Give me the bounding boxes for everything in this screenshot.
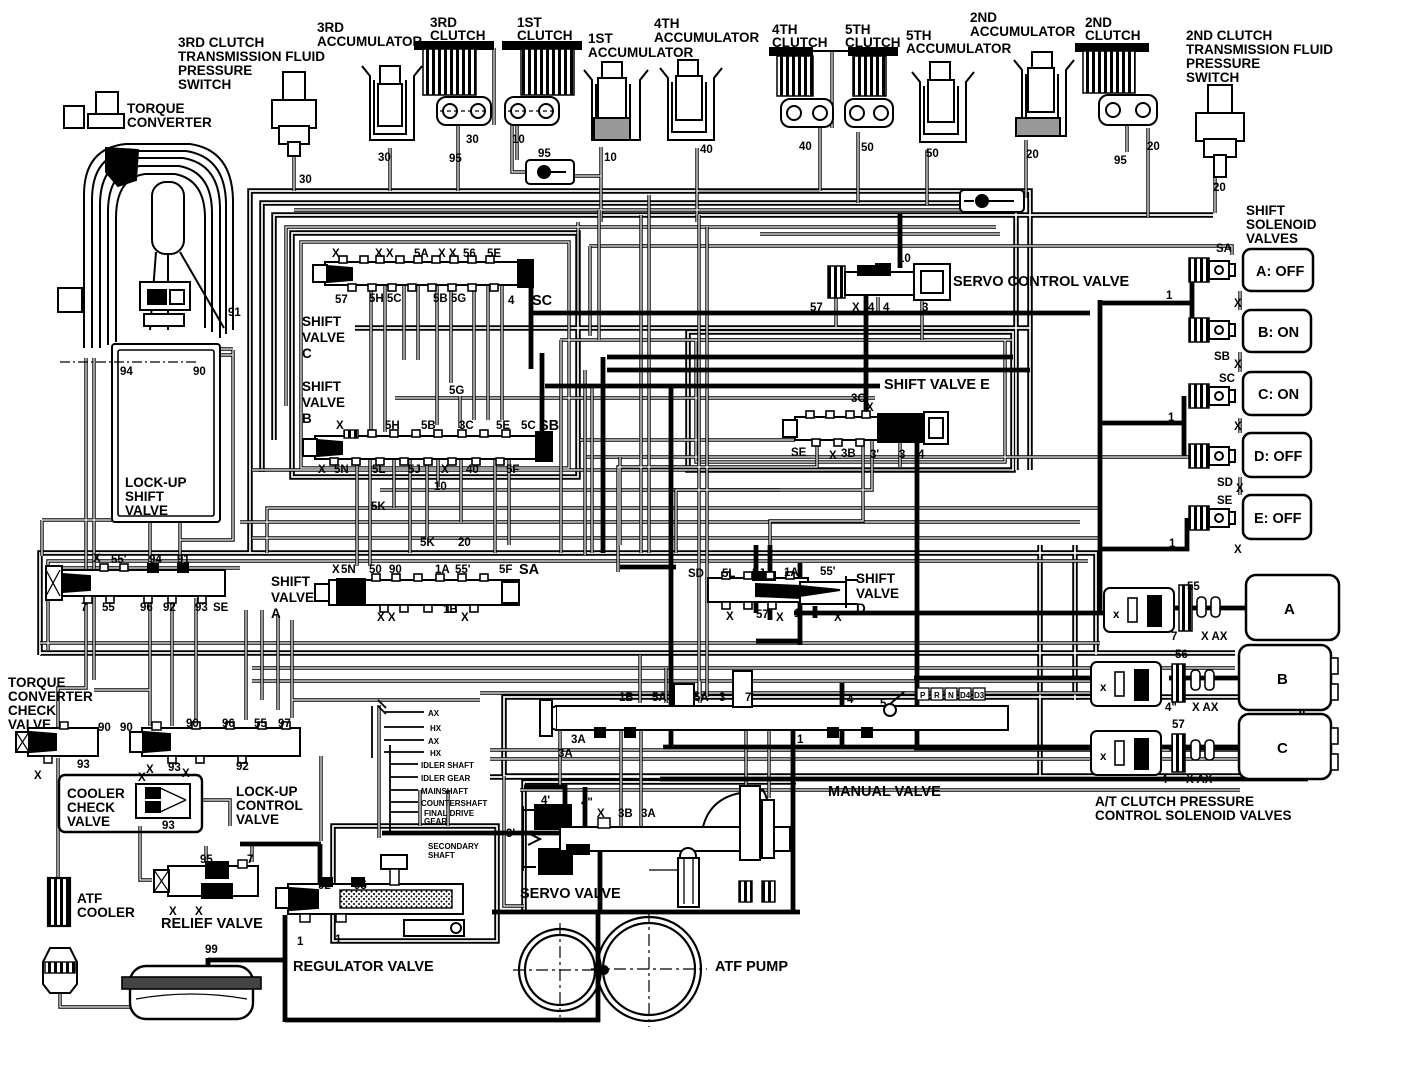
shift solenoid valve C coil	[1189, 384, 1235, 408]
svg-text:TORQUE: TORQUE	[127, 101, 185, 116]
shift solenoid valve D coil	[1189, 444, 1235, 468]
wire thick branch to solenoid A/B	[1100, 270, 1192, 330]
svg-text:3A: 3A	[571, 734, 586, 746]
check valve top right	[960, 190, 1024, 212]
svg-text:95: 95	[538, 148, 551, 160]
wire thick SB column	[540, 353, 545, 436]
svg-text:E: OFF: E: OFF	[1254, 511, 1302, 527]
clutch 1st	[503, 42, 581, 125]
svg-text:SD: SD	[688, 568, 704, 580]
svg-text:SD: SD	[1217, 477, 1233, 489]
svg-text:93: 93	[77, 759, 90, 771]
svg-text:x: x	[1113, 609, 1120, 621]
svg-text:3B: 3B	[841, 448, 856, 460]
shift solenoid valve B coil	[1189, 318, 1235, 342]
svg-text:X: X	[461, 612, 469, 624]
regulator valve	[276, 855, 464, 936]
wire thick bus x756	[754, 545, 759, 613]
svg-text:55: 55	[102, 602, 115, 614]
svg-text:3C: 3C	[851, 393, 866, 405]
svg-text:CONTROL SOLENOID VALVES: CONTROL SOLENOID VALVES	[1095, 808, 1292, 823]
svg-text:X: X	[195, 906, 203, 918]
wire thick branch to solenoid C/D	[1100, 396, 1184, 456]
svg-text:5E: 5E	[496, 420, 510, 432]
svg-text:5N: 5N	[334, 464, 349, 476]
svg-text:X: X	[852, 302, 860, 314]
svg-text:92: 92	[163, 602, 176, 614]
A/T clutch pressure solenoid C body	[1091, 731, 1214, 775]
svg-text:P: P	[920, 691, 926, 700]
svg-text:1A: 1A	[435, 564, 450, 576]
svg-text:95: 95	[1114, 155, 1127, 167]
svg-text:CLUTCH: CLUTCH	[845, 35, 901, 50]
svg-text:90: 90	[193, 366, 206, 378]
svg-text:COOLER: COOLER	[67, 786, 125, 801]
svg-text:57: 57	[1172, 719, 1185, 731]
svg-text:MAINSHAFT: MAINSHAFT	[421, 787, 468, 796]
svg-text:90: 90	[186, 718, 199, 730]
svg-text:SE: SE	[791, 447, 807, 459]
svg-text:5A: 5A	[414, 248, 429, 260]
svg-text:SWITCH: SWITCH	[178, 77, 231, 92]
svg-text:90: 90	[98, 722, 111, 734]
svg-text:HX: HX	[430, 749, 442, 758]
wire thick trunk y357	[607, 355, 1013, 360]
svg-text:94: 94	[120, 366, 133, 378]
wire thick branch to solenoid E	[1100, 518, 1187, 549]
svg-text:95: 95	[354, 880, 367, 892]
svg-text:IDLER SHAFT: IDLER SHAFT	[421, 761, 474, 770]
svg-text:AX: AX	[428, 709, 440, 718]
svg-text:CHECK: CHECK	[8, 703, 56, 718]
clutch 5th	[812, 48, 897, 127]
svg-text:5N: 5N	[341, 564, 356, 576]
svg-text:5H 5C: 5H 5C	[369, 293, 402, 305]
svg-text:COUNTERSHAFT: COUNTERSHAFT	[421, 799, 487, 808]
torque converter centerline	[60, 361, 199, 363]
wire thick regulator left	[283, 915, 288, 1022]
wire thick servo feed vertical	[791, 731, 796, 912]
svg-text:5B 5G: 5B 5G	[433, 293, 466, 305]
svg-text:SHIFT: SHIFT	[302, 314, 342, 329]
svg-text:10: 10	[604, 152, 617, 164]
svg-text:CLUTCH: CLUTCH	[772, 35, 828, 50]
servo valve	[523, 786, 790, 907]
svg-text:40: 40	[466, 464, 479, 476]
svg-text:5L: 5L	[722, 568, 735, 580]
svg-text:5F: 5F	[499, 564, 512, 576]
svg-text:CONVERTER: CONVERTER	[127, 115, 212, 130]
svg-text:SHIFT: SHIFT	[271, 574, 311, 589]
accumulator 5th	[912, 62, 974, 142]
pressure switch 2nd clutch	[1196, 85, 1244, 177]
svg-text:SWITCH: SWITCH	[1186, 70, 1239, 85]
svg-text:1A: 1A	[784, 567, 799, 579]
svg-text:2ND: 2ND	[970, 10, 997, 25]
svg-text:5A: 5A	[694, 692, 709, 704]
svg-text:N: N	[948, 691, 954, 700]
ATF pump small gear	[513, 923, 607, 1017]
svg-text:2ND CLUTCH: 2ND CLUTCH	[1186, 28, 1272, 43]
svg-text:SHIFT VALVE E: SHIFT VALVE E	[884, 377, 990, 393]
svg-text:55: 55	[254, 718, 267, 730]
accumulator 2nd	[1014, 52, 1074, 136]
spool shift valve E	[783, 411, 948, 446]
svg-text:X: X	[332, 248, 340, 260]
svg-text:HX: HX	[430, 724, 442, 733]
A/T clutch pressure solenoid A box	[1246, 575, 1339, 640]
svg-text:20: 20	[1213, 182, 1226, 194]
svg-text:1ST: 1ST	[588, 31, 614, 46]
svg-text:AX: AX	[428, 737, 440, 746]
svg-text:55: 55	[1187, 581, 1200, 593]
svg-text:5A: 5A	[652, 692, 667, 704]
svg-text:SA: SA	[1216, 243, 1232, 255]
svg-text:X: X	[1234, 359, 1242, 371]
svg-text:57: 57	[335, 294, 348, 306]
svg-text:3C: 3C	[459, 420, 474, 432]
svg-text:99: 99	[205, 944, 218, 956]
svg-text:56: 56	[1175, 649, 1188, 661]
svg-text:92: 92	[236, 761, 249, 773]
svg-text:ACCUMULATOR: ACCUMULATOR	[906, 41, 1011, 56]
svg-text:SA: SA	[519, 562, 540, 578]
svg-text:4': 4'	[541, 795, 550, 807]
svg-text:5J: 5J	[752, 568, 765, 580]
wire thick manual valve port 4	[840, 683, 845, 747]
svg-text:SE: SE	[1217, 495, 1233, 507]
spool manual valve	[540, 671, 1008, 737]
svg-text:30: 30	[378, 152, 391, 164]
svg-text:CLUTCH: CLUTCH	[1085, 28, 1141, 43]
torque converter check valve	[16, 722, 98, 763]
svg-text:5C: 5C	[521, 420, 536, 432]
svg-text:MANUAL VALVE: MANUAL VALVE	[828, 784, 941, 800]
svg-text:VALVE: VALVE	[302, 330, 345, 345]
svg-text:ACCUMULATOR: ACCUMULATOR	[588, 45, 693, 60]
svg-text:X: X	[182, 768, 190, 780]
svg-text:VALVE: VALVE	[856, 586, 899, 601]
wire thick trunk y386	[545, 384, 880, 389]
svg-text:X: X	[776, 612, 784, 624]
svg-text:X: X	[336, 420, 344, 432]
svg-text:5K: 5K	[371, 501, 386, 513]
wire thick bottom return	[285, 1018, 600, 1023]
wire thick trunk y370	[607, 368, 1030, 373]
svg-text:X: X	[1234, 421, 1242, 433]
svg-text:92: 92	[318, 880, 331, 892]
svg-text:96: 96	[222, 718, 235, 730]
wire thick secondary shaft line	[382, 833, 600, 912]
svg-text:TORQUE: TORQUE	[8, 675, 66, 690]
svg-text:SHAFT: SHAFT	[428, 851, 455, 860]
svg-text:X: X	[834, 612, 842, 624]
svg-text:RELIEF VALVE: RELIEF VALVE	[161, 916, 263, 932]
wire thick pan 99 line	[208, 958, 287, 966]
label shaft legend	[421, 709, 487, 860]
svg-text:20: 20	[1147, 141, 1160, 153]
wire thick regulator feed	[240, 844, 321, 884]
svg-text:1: 1	[797, 734, 804, 746]
A/T clutch pressure solenoid C box	[1239, 714, 1331, 779]
svg-text:LOCK-UP: LOCK-UP	[236, 784, 298, 799]
svg-text:VALVE: VALVE	[67, 814, 110, 829]
svg-text:90: 90	[120, 722, 133, 734]
svg-text:50: 50	[369, 564, 382, 576]
svg-text:1: 1	[1166, 290, 1173, 302]
svg-text:4": 4"	[1165, 702, 1177, 714]
svg-text:55': 55'	[820, 566, 836, 578]
wire thick manual valve y777	[660, 777, 1308, 782]
svg-text:30: 30	[466, 134, 479, 146]
svg-text:X X: X X	[377, 612, 396, 624]
svg-text:D4: D4	[960, 691, 971, 700]
svg-text:X AX: X AX	[1192, 702, 1219, 714]
svg-text:93: 93	[162, 820, 175, 832]
svg-text:7: 7	[745, 692, 751, 704]
svg-text:4TH: 4TH	[654, 16, 680, 31]
svg-text:3: 3	[719, 692, 725, 704]
svg-text:SC: SC	[1219, 373, 1235, 385]
svg-text:4: 4	[508, 295, 515, 307]
svg-text:96: 96	[140, 602, 153, 614]
ATF cooler	[48, 878, 70, 926]
wire thick shift-D right vertical	[756, 563, 802, 645]
wire thick SC column	[529, 286, 534, 369]
svg-text:3: 3	[922, 302, 928, 314]
wire thick servo 4-prime feeds	[524, 787, 585, 830]
svg-text:D3: D3	[974, 691, 985, 700]
svg-text:ATF PUMP: ATF PUMP	[715, 959, 788, 975]
svg-text:5F: 5F	[506, 464, 519, 476]
svg-text:1B: 1B	[443, 604, 458, 616]
svg-text:5K: 5K	[420, 537, 435, 549]
svg-text:3A: 3A	[641, 808, 656, 820]
svg-text:SHIFT: SHIFT	[125, 489, 165, 504]
wire thick servo-control to shift-E	[864, 295, 869, 415]
svg-text:ATF: ATF	[77, 891, 102, 906]
svg-text:PRESSURE: PRESSURE	[1186, 56, 1260, 71]
svg-text:90: 90	[389, 564, 402, 576]
wire thick A/T solenoid C feed	[914, 746, 1239, 751]
cooler check valve box	[59, 775, 202, 832]
svg-text:X: X	[34, 770, 42, 782]
svg-text:CLUTCH: CLUTCH	[430, 28, 486, 43]
svg-text:95: 95	[200, 854, 213, 866]
ATF pump large gear	[591, 911, 707, 1027]
svg-text:SB: SB	[1214, 351, 1230, 363]
A/T clutch pressure solenoid A body	[1104, 585, 1220, 632]
svg-text:5H: 5H	[385, 420, 400, 432]
svg-text:VALVE: VALVE	[125, 503, 168, 518]
svg-text:VALVES: VALVES	[1246, 231, 1298, 246]
spool shift valve D	[708, 572, 858, 609]
svg-text:1: 1	[794, 608, 801, 620]
svg-text:D: OFF: D: OFF	[1254, 449, 1302, 465]
svg-text:40: 40	[700, 144, 713, 156]
svg-text:X: X	[597, 808, 605, 820]
svg-text:IDLER GEAR: IDLER GEAR	[421, 774, 471, 783]
pressure switch 3rd clutch	[272, 72, 316, 156]
svg-text:X: X	[726, 611, 734, 623]
svg-text:3': 3'	[506, 828, 515, 840]
clutch 4th	[770, 48, 833, 127]
svg-text:1: 1	[1169, 538, 1176, 550]
svg-text:PRESSURE: PRESSURE	[178, 63, 252, 78]
spool shift valve C	[313, 256, 533, 291]
svg-text:7: 7	[81, 602, 87, 614]
svg-text:B: B	[1277, 671, 1288, 688]
svg-text:X: X	[332, 564, 340, 576]
shift solenoid valve E coil	[1189, 506, 1235, 530]
torque converter	[58, 92, 233, 348]
svg-text:55': 55'	[455, 564, 471, 576]
accumulator 4th	[660, 60, 722, 140]
wire thick bus x770	[768, 545, 773, 620]
check valve 95 top	[526, 160, 574, 184]
spool shift valve A	[315, 574, 519, 612]
svg-text:3RD CLUTCH: 3RD CLUTCH	[178, 35, 264, 50]
cooler check valve spool	[136, 784, 190, 818]
svg-text:X: X	[441, 464, 449, 476]
svg-text:x: x	[1100, 682, 1107, 694]
svg-text:5J: 5J	[408, 464, 421, 476]
svg-text:X AX: X AX	[1201, 631, 1228, 643]
wire thick shift-D down	[813, 606, 818, 618]
svg-text:56: 56	[463, 248, 476, 260]
clutch 2nd	[1076, 44, 1157, 125]
svg-text:97: 97	[278, 718, 291, 730]
svg-text:10: 10	[434, 481, 447, 493]
svg-text:3B: 3B	[618, 808, 633, 820]
svg-text:X X: X X	[438, 248, 457, 260]
svg-text:10: 10	[898, 253, 911, 265]
svg-text:CONVERTER: CONVERTER	[8, 689, 93, 704]
A/T clutch pressure solenoid B box	[1239, 645, 1331, 710]
svg-text:R: R	[934, 691, 940, 700]
svg-text:x: x	[1100, 751, 1107, 763]
shift solenoid valve D box	[1243, 433, 1311, 477]
svg-text:94: 94	[149, 554, 162, 566]
svg-text:SC: SC	[532, 293, 553, 309]
spool servo control valve	[828, 264, 950, 300]
wire thick under servo valve	[492, 910, 800, 915]
svg-text:50: 50	[861, 142, 874, 154]
svg-text:5B: 5B	[421, 420, 436, 432]
svg-text:B: B	[302, 411, 312, 426]
lock-up control valve spool	[130, 722, 300, 763]
svg-text:X AX: X AX	[1186, 774, 1213, 786]
svg-text:VALVE: VALVE	[8, 717, 51, 732]
svg-text:CHECK: CHECK	[67, 800, 115, 815]
svg-text:4: 4	[883, 302, 890, 314]
shift solenoid valve B box	[1243, 310, 1311, 352]
svg-text:TRANSMISSION FLUID: TRANSMISSION FLUID	[1186, 42, 1333, 57]
svg-text:C: C	[1277, 740, 1288, 757]
svg-text:X: X	[146, 764, 154, 776]
svg-text:X: X	[93, 553, 101, 565]
svg-text:57: 57	[810, 302, 823, 314]
svg-text:X: X	[866, 402, 874, 414]
svg-text:91: 91	[228, 307, 241, 319]
svg-text:ACCUMULATOR: ACCUMULATOR	[317, 34, 422, 49]
svg-text:3A: 3A	[558, 748, 573, 760]
svg-text:40: 40	[799, 141, 812, 153]
svg-text:5E: 5E	[487, 248, 501, 260]
svg-text:20: 20	[1026, 149, 1039, 161]
svg-text:93: 93	[168, 762, 181, 774]
svg-text:VALVE: VALVE	[271, 590, 314, 605]
svg-text:X: X	[1236, 483, 1244, 495]
svg-text:SERVO CONTROL VALVE: SERVO CONTROL VALVE	[953, 274, 1130, 290]
wire thick solenoid bus vertical	[1098, 300, 1103, 615]
svg-text:1: 1	[335, 934, 342, 946]
spool lock-up shift valve	[46, 564, 225, 603]
svg-text:X: X	[138, 772, 146, 784]
svg-text:7: 7	[247, 854, 253, 866]
accumulator 1st	[584, 62, 648, 140]
wire thick A/T solenoid A feed	[794, 608, 1246, 613]
wire thick main bus y313	[532, 311, 1090, 316]
svg-text:X X: X X	[375, 248, 394, 260]
svg-text:REGULATOR VALVE: REGULATOR VALVE	[293, 959, 434, 975]
svg-text:X: X	[829, 450, 837, 462]
svg-text:SE: SE	[213, 602, 229, 614]
svg-text:A: OFF: A: OFF	[1256, 264, 1304, 280]
svg-text:CLUTCH: CLUTCH	[517, 28, 573, 43]
svg-text:VALVE: VALVE	[302, 395, 345, 410]
svg-text:91: 91	[177, 554, 190, 566]
wire thick servo right vertical	[596, 912, 601, 1022]
svg-text:50: 50	[926, 148, 939, 160]
svg-text:1B: 1B	[619, 692, 634, 704]
svg-text:SHIFT: SHIFT	[302, 379, 342, 394]
svg-text:SECONDARY: SECONDARY	[428, 842, 479, 851]
svg-text:SHIFT: SHIFT	[1246, 203, 1286, 218]
svg-text:95: 95	[449, 153, 462, 165]
svg-text:30: 30	[299, 174, 312, 186]
spool shift valve B	[303, 430, 552, 465]
svg-text:SERVO VALVE: SERVO VALVE	[520, 886, 621, 902]
svg-text:3': 3'	[870, 449, 879, 461]
wire thick B/C feed vertical	[915, 443, 920, 748]
lock-up shift valve box	[112, 344, 220, 522]
svg-text:ACCUMULATOR: ACCUMULATOR	[970, 24, 1075, 39]
oil pan	[122, 966, 261, 1019]
svg-text:3RD: 3RD	[317, 20, 344, 35]
svg-text:VALVE: VALVE	[236, 812, 279, 827]
svg-text:TRANSMISSION FLUID: TRANSMISSION FLUID	[178, 49, 325, 64]
shift solenoid valve A coil	[1189, 258, 1235, 282]
svg-text:X: X	[318, 464, 326, 476]
svg-text:X: X	[1234, 544, 1242, 556]
svg-text:X: X	[169, 906, 177, 918]
svg-text:COOLER: COOLER	[77, 905, 135, 920]
svg-text:57: 57	[756, 609, 769, 621]
svg-text:5L: 5L	[372, 464, 385, 476]
svg-text:4: 4	[847, 694, 854, 706]
wire thick x603 drop	[601, 357, 606, 553]
svg-text:B: ON: B: ON	[1258, 325, 1299, 341]
svg-text:CONTROL: CONTROL	[236, 798, 303, 813]
wire thick 10 stem servo control	[898, 213, 903, 268]
svg-text:X: X	[1234, 298, 1242, 310]
svg-text:1: 1	[1168, 412, 1175, 424]
clutch 3rd	[415, 42, 493, 125]
svg-text:D: D	[856, 601, 866, 616]
svg-text:4: 4	[1161, 774, 1168, 786]
wire thick shift-D left feed	[620, 386, 676, 747]
